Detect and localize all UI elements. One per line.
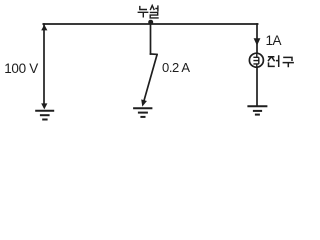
node junction dot (누설 point) <box>148 20 153 25</box>
arrow down at middle ground (leakage current) <box>141 99 147 106</box>
arrow up on left branch (current direction) <box>41 25 47 31</box>
ground middle (earth) <box>133 108 152 117</box>
label 누설 (leakage, hangul drawn as strokes) <box>138 5 159 18</box>
svg-text:0.2 A: 0.2 A <box>162 60 190 75</box>
wire top horizontal bus <box>43 23 257 25</box>
svg-text:100 V: 100 V <box>4 61 38 76</box>
svg-text:1A: 1A <box>266 33 282 48</box>
wire middle jog to right <box>151 53 158 55</box>
ground right (earth) <box>247 106 267 114</box>
wire middle vertical from junction <box>150 24 152 54</box>
arrow down at left ground <box>41 103 47 109</box>
wire left vertical branch <box>43 24 45 105</box>
lamp L1 circle (전구) <box>249 53 263 67</box>
arrow down on right branch (1A current) <box>254 38 261 45</box>
lamp filament <box>253 54 258 68</box>
label 전구 (lamp, hangul drawn as strokes) <box>268 55 294 67</box>
wire middle leakage slant <box>144 55 157 101</box>
ground left (earth) <box>35 111 54 120</box>
wire right vertical branch <box>256 24 258 105</box>
